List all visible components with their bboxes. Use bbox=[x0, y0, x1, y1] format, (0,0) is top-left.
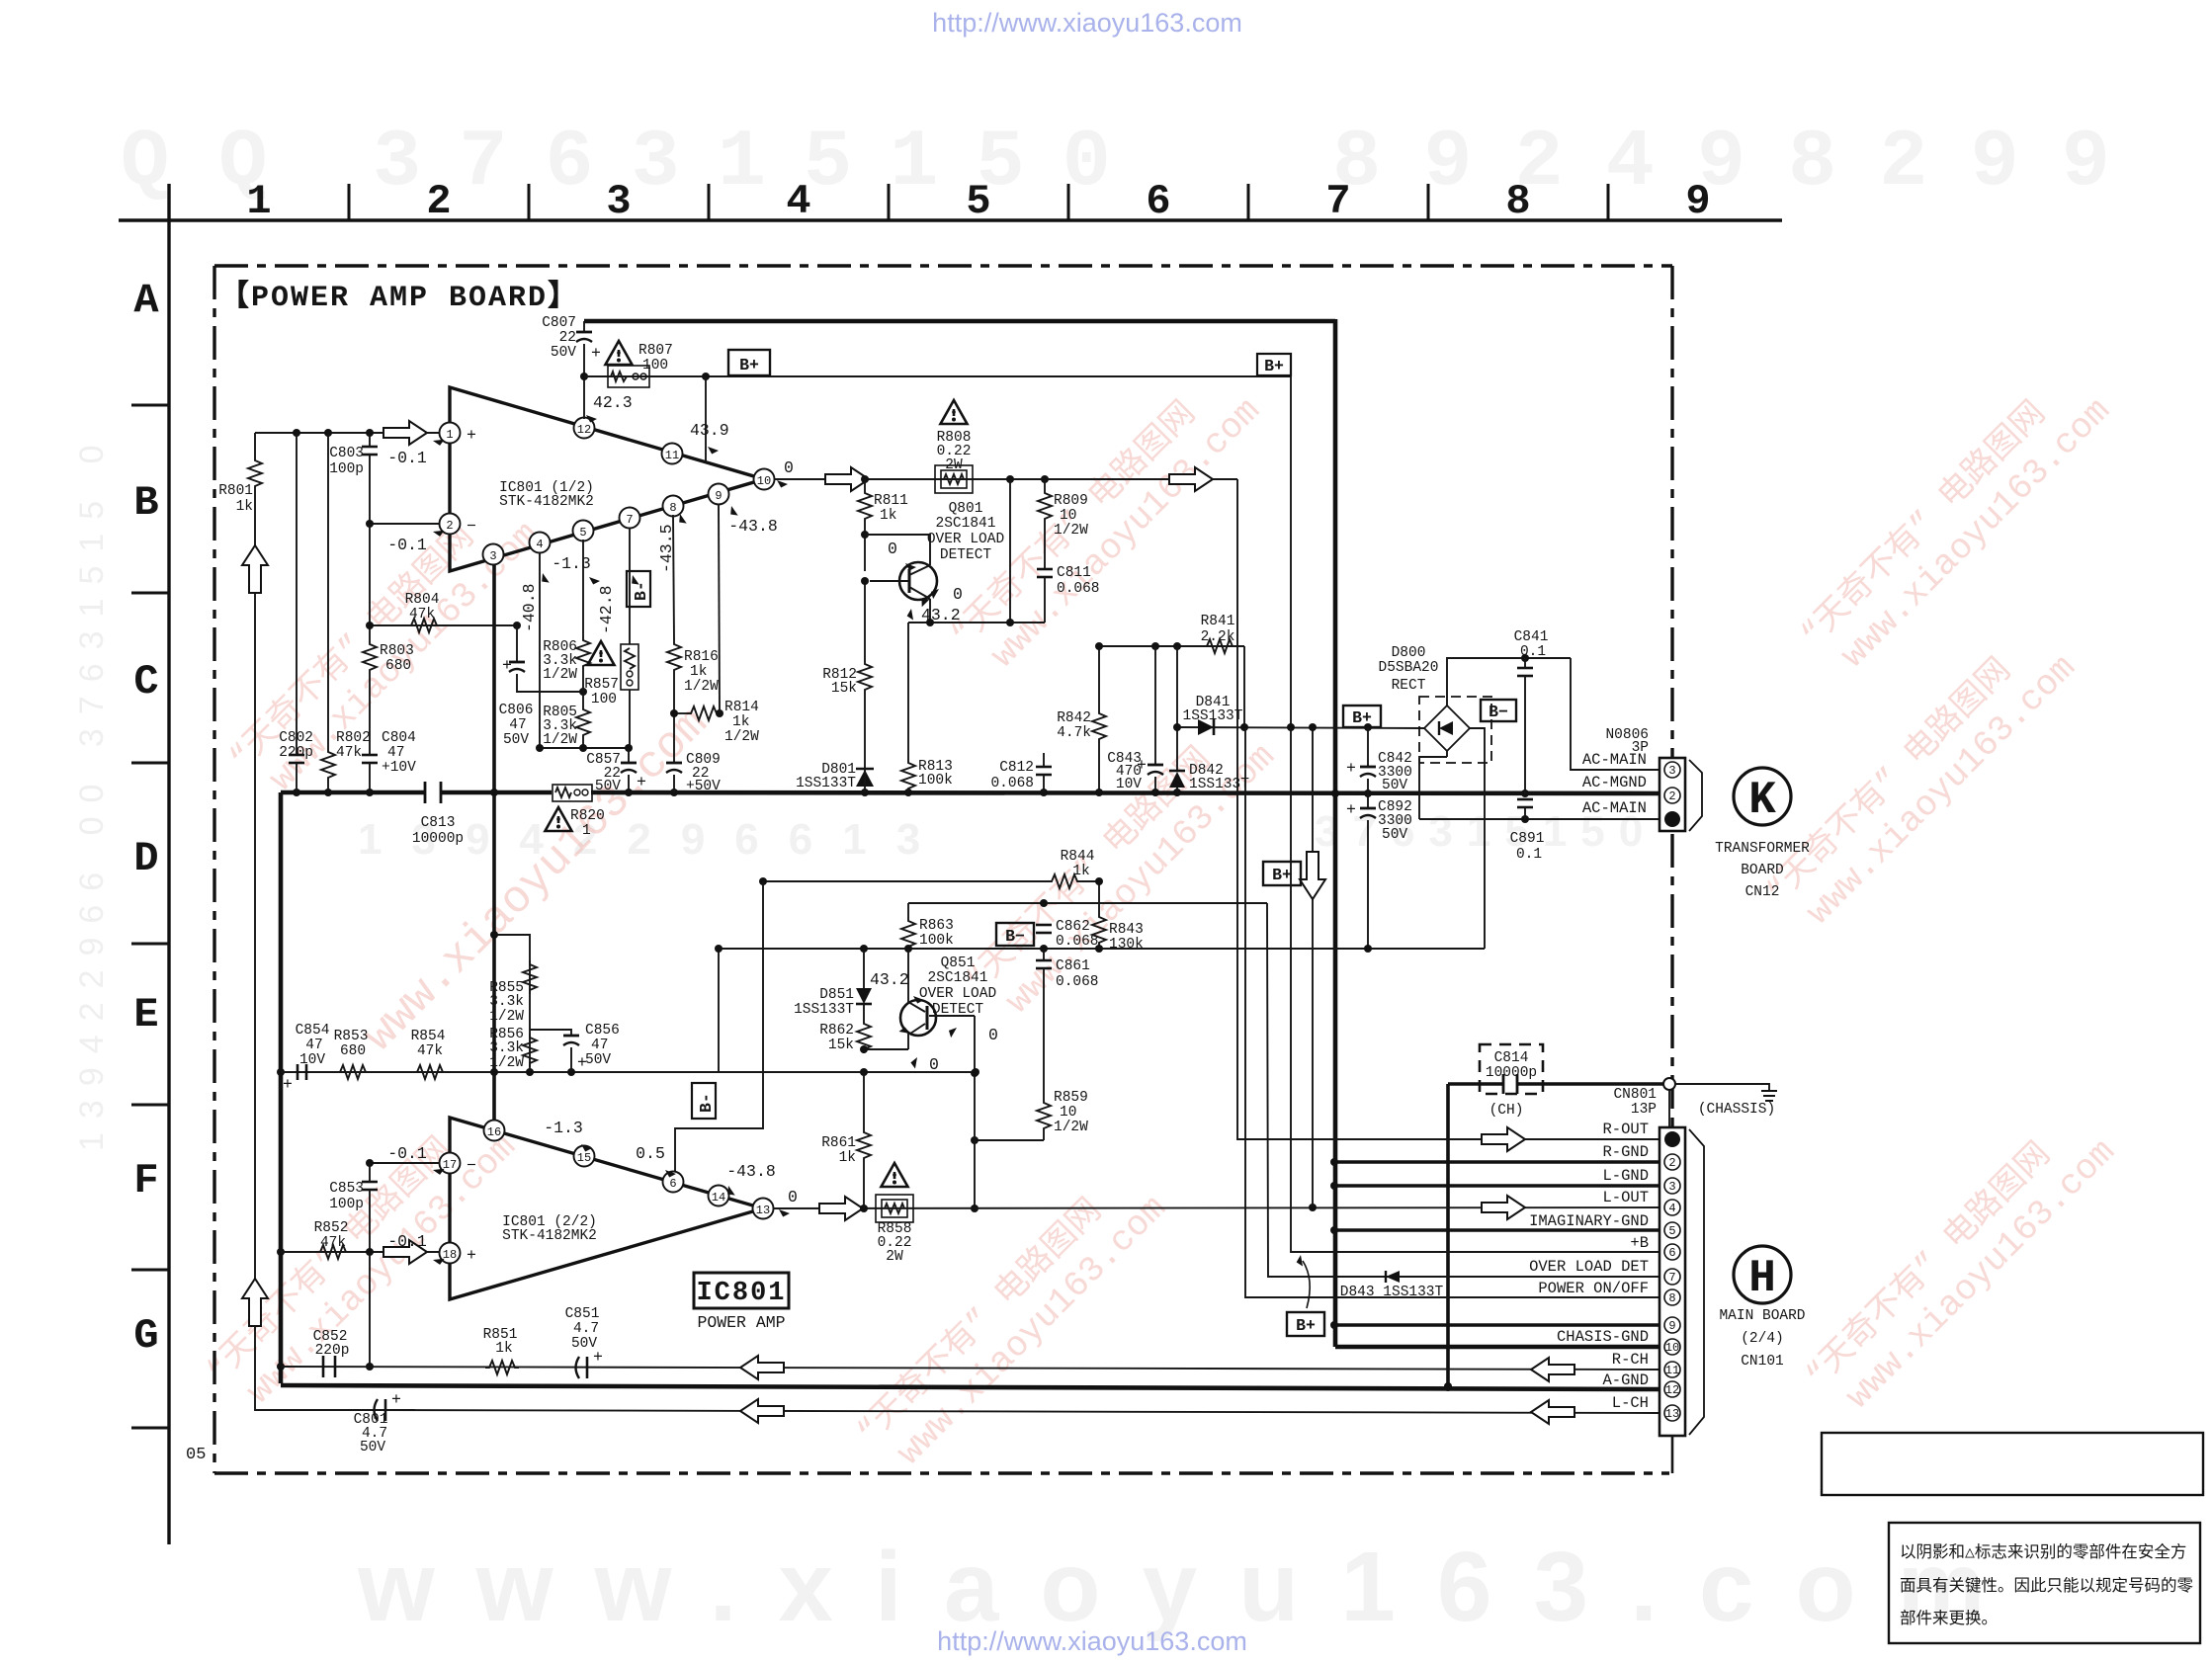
wire: R859 to output node bbox=[975, 1139, 1044, 1141]
watermark: pink diagonal clusters bbox=[199, 360, 2124, 1483]
wire: A-GND thick bus to H pin12 bbox=[281, 1385, 1659, 1389]
svg-text:+: + bbox=[637, 773, 646, 791]
pin 9 bbox=[709, 484, 729, 505]
svg-text:1k: 1k bbox=[1072, 864, 1089, 879]
svg-text:R807: R807 bbox=[638, 343, 673, 359]
svg-text:STK-4182MK2: STK-4182MK2 bbox=[499, 494, 594, 510]
wire: +B riser bbox=[1291, 727, 1659, 1252]
svg-text:0.068: 0.068 bbox=[1056, 934, 1099, 950]
pin 15 bbox=[574, 1146, 595, 1167]
svg-text:15: 15 bbox=[577, 1151, 591, 1165]
svg-text:F: F bbox=[133, 1157, 158, 1205]
board dash-dot border bbox=[214, 264, 1672, 267]
svg-text:1: 1 bbox=[582, 823, 591, 839]
capacitor C854 bbox=[297, 1064, 299, 1080]
svg-text:C803: C803 bbox=[329, 446, 364, 461]
wire: overload det drop bbox=[1267, 903, 1659, 1277]
svg-text:面具有关键性。因此只能以规定号码的零: 面具有关键性。因此只能以规定号码的零 bbox=[1900, 1576, 2194, 1596]
IC801 box label bbox=[694, 1273, 789, 1308]
svg-text:7: 7 bbox=[1325, 178, 1350, 225]
svg-text:-0.1: -0.1 bbox=[387, 1144, 427, 1163]
chinese note box bbox=[1889, 1523, 2200, 1643]
capacitor C856 bbox=[530, 1030, 571, 1036]
svg-text:50V: 50V bbox=[595, 779, 621, 794]
arrow L-CH right bbox=[1531, 1400, 1574, 1424]
svg-text:4: 4 bbox=[1668, 1202, 1675, 1215]
svg-text:+: + bbox=[283, 1075, 293, 1094]
pin 16 bbox=[484, 1121, 505, 1141]
svg-text:1: 1 bbox=[246, 178, 271, 225]
resistor R820 shaded bbox=[553, 785, 592, 801]
wire: output node riser bbox=[974, 1016, 976, 1208]
wire: R-OUT drop bbox=[1237, 479, 1659, 1139]
svg-text:以阴影和△标志来识别的零部件在安全方: 以阴影和△标志来识别的零部件在安全方 bbox=[1900, 1542, 2186, 1562]
svg-text:AC-MAIN: AC-MAIN bbox=[1582, 799, 1647, 817]
svg-text:22: 22 bbox=[559, 330, 576, 346]
svg-text:1/2W: 1/2W bbox=[543, 667, 577, 683]
svg-text:E: E bbox=[133, 991, 158, 1039]
resistor R806 bbox=[582, 540, 584, 636]
svg-text:R802: R802 bbox=[336, 730, 371, 746]
svg-text:R863: R863 bbox=[919, 918, 954, 934]
wire: zobel row 1085 bbox=[281, 1071, 976, 1073]
svg-text:376315150: 376315150 bbox=[373, 117, 1149, 208]
svg-text:10000p: 10000p bbox=[412, 831, 464, 847]
svg-text:-1.3: -1.3 bbox=[544, 1119, 583, 1137]
svg-text:100k: 100k bbox=[918, 773, 953, 789]
svg-text:2: 2 bbox=[1668, 789, 1675, 803]
svg-text:CN101: CN101 bbox=[1741, 1354, 1784, 1370]
connector pin4 bbox=[1664, 1200, 1680, 1215]
svg-text:C856: C856 bbox=[585, 1023, 620, 1039]
svg-text:R862: R862 bbox=[819, 1023, 854, 1039]
capacitor C803 bbox=[369, 433, 371, 447]
svg-text:1SS133T: 1SS133T bbox=[1189, 777, 1249, 792]
svg-text:-0.1: -0.1 bbox=[387, 1232, 427, 1251]
connector pin6 bbox=[1664, 1244, 1680, 1260]
svg-text:-0.1: -0.1 bbox=[387, 449, 427, 467]
wire: bridge bottom AC bbox=[1446, 751, 1448, 757]
wire: input line pin1 bbox=[255, 432, 440, 434]
warning triangle R820 bbox=[546, 807, 572, 831]
svg-text:C891: C891 bbox=[1510, 831, 1545, 847]
wire: R841 right leg bbox=[1243, 646, 1245, 727]
svg-text:http://www.xiaoyu163.com: http://www.xiaoyu163.com bbox=[937, 1626, 1247, 1656]
ruler left line bbox=[167, 184, 170, 1544]
empty note box bbox=[1822, 1433, 2203, 1495]
svg-text:139422966 00 37631515 0: 139422966 00 37631515 0 bbox=[73, 431, 111, 1151]
svg-text:-1.3: -1.3 bbox=[552, 554, 591, 573]
resistor R805 bbox=[582, 692, 584, 706]
svg-text:1k: 1k bbox=[236, 499, 253, 515]
svg-text:D: D bbox=[133, 835, 158, 882]
svg-text:R852: R852 bbox=[314, 1220, 349, 1236]
svg-text:(CH): (CH) bbox=[1489, 1103, 1524, 1119]
svg-text:18: 18 bbox=[443, 1248, 457, 1262]
svg-text:B−: B− bbox=[1005, 927, 1025, 946]
svg-text:50V: 50V bbox=[585, 1052, 611, 1068]
svg-text:R844: R844 bbox=[1061, 849, 1095, 865]
svg-text:AC-MGND: AC-MGND bbox=[1582, 774, 1647, 791]
arrow output4 bbox=[1482, 1196, 1525, 1219]
pin 12 bbox=[574, 418, 595, 439]
connector pin12 bbox=[1664, 1381, 1680, 1397]
svg-text:0.1: 0.1 bbox=[1516, 847, 1542, 863]
svg-text:1/2W: 1/2W bbox=[1054, 1120, 1088, 1135]
wire: amp1 output bbox=[774, 478, 1237, 480]
svg-text:B: B bbox=[133, 479, 158, 527]
svg-text:220p: 220p bbox=[279, 745, 313, 761]
svg-text:D5SBA20: D5SBA20 bbox=[1379, 660, 1439, 676]
svg-text:10V: 10V bbox=[299, 1052, 325, 1068]
pin 18 bbox=[440, 1243, 461, 1264]
svg-text:B+: B+ bbox=[1352, 708, 1372, 727]
warning triangle R857 bbox=[588, 641, 615, 665]
transistor Q801 bbox=[899, 562, 937, 600]
wire: R-GND bbox=[1334, 1160, 1659, 1164]
transistor Q851 bbox=[900, 1000, 936, 1036]
svg-text:47k: 47k bbox=[336, 745, 362, 761]
svg-text:1k: 1k bbox=[732, 714, 749, 730]
wire: AC-MAIN top to K3 bbox=[1571, 658, 1659, 770]
ruler top line bbox=[119, 218, 1782, 221]
wire: pin11 sense bbox=[705, 376, 707, 461]
svg-text:RECT: RECT bbox=[1392, 678, 1426, 694]
wire: R855 tap bbox=[494, 935, 530, 1072]
svg-text:+: + bbox=[502, 656, 512, 675]
svg-text:L-GND: L-GND bbox=[1602, 1167, 1649, 1185]
svg-text:IMAGINARY-GND: IMAGINARY-GND bbox=[1529, 1212, 1649, 1230]
capacitor C843 bbox=[1154, 646, 1156, 765]
connector pin11 bbox=[1664, 1362, 1680, 1377]
svg-text:50V: 50V bbox=[1382, 778, 1407, 793]
svg-text:5: 5 bbox=[1668, 1224, 1675, 1238]
wire: power on/off riser bbox=[1245, 728, 1659, 1297]
resistor R808 shaded bbox=[935, 465, 973, 493]
svg-text:0.5: 0.5 bbox=[636, 1144, 665, 1163]
svg-text:K: K bbox=[1748, 775, 1776, 826]
svg-text:0: 0 bbox=[988, 1026, 998, 1044]
curve B+ pointer bbox=[1303, 1261, 1310, 1308]
wire: 727 drop bbox=[718, 949, 720, 1072]
svg-text:50V: 50V bbox=[571, 1336, 597, 1352]
svg-text:D800: D800 bbox=[1392, 645, 1426, 661]
svg-text:R841: R841 bbox=[1201, 614, 1235, 629]
pin 3 bbox=[483, 544, 504, 565]
resistor R811 bbox=[864, 479, 866, 489]
wire: pin6 feed bbox=[675, 881, 763, 1172]
wire: pin9 drop bbox=[719, 504, 720, 713]
pin 7 bbox=[620, 508, 640, 529]
arrow R-OUT bbox=[1482, 1127, 1525, 1151]
wire: thick vertical x=284 bbox=[279, 792, 284, 1383]
svg-text:43.2: 43.2 bbox=[870, 970, 909, 989]
pin 13 bbox=[753, 1199, 774, 1219]
svg-text:9: 9 bbox=[715, 489, 722, 503]
capacitor C802 bbox=[296, 433, 298, 755]
svg-text:QQ: QQ bbox=[121, 117, 316, 208]
svg-text:680: 680 bbox=[340, 1043, 366, 1059]
svg-text:C807: C807 bbox=[542, 315, 576, 331]
connector K circle bbox=[1734, 768, 1791, 825]
resistor R853 bbox=[336, 1065, 370, 1079]
resistor R856 bbox=[523, 1034, 537, 1067]
svg-text:−: − bbox=[467, 1156, 476, 1175]
chassis stub bbox=[1675, 1084, 1769, 1091]
svg-text:A: A bbox=[133, 277, 159, 324]
svg-text:L-OUT: L-OUT bbox=[1602, 1189, 1649, 1206]
B- label bbox=[1481, 700, 1516, 721]
svg-text:47: 47 bbox=[591, 1038, 608, 1053]
capacitor C814 dashed bbox=[1480, 1044, 1543, 1094]
ruler column numbers bbox=[246, 178, 1710, 225]
svg-text:+: + bbox=[1346, 800, 1356, 819]
wire: main horizontal bus y=802 bbox=[281, 790, 425, 795]
capacitor C806 bbox=[516, 625, 518, 662]
svg-text:-43.8: -43.8 bbox=[728, 517, 778, 536]
wire: collector link bbox=[865, 535, 930, 565]
svg-text:680: 680 bbox=[385, 658, 411, 674]
svg-text:47: 47 bbox=[509, 717, 526, 733]
svg-text:R-GND: R-GND bbox=[1602, 1143, 1649, 1161]
svg-text:(2/4): (2/4) bbox=[1741, 1331, 1784, 1347]
B+ label top bbox=[728, 350, 770, 375]
svg-text:http://www.xiaoyu163.com: http://www.xiaoyu163.com bbox=[932, 8, 1242, 38]
svg-text:C806: C806 bbox=[499, 703, 534, 718]
svg-text:+: + bbox=[467, 426, 476, 445]
capacitor C891 bbox=[1517, 799, 1533, 807]
ruler left ticks bbox=[131, 405, 169, 1428]
arrow output1 bbox=[825, 467, 869, 491]
svg-text:1/2W: 1/2W bbox=[489, 1055, 524, 1071]
svg-text:50V: 50V bbox=[551, 345, 576, 361]
svg-text:17: 17 bbox=[443, 1158, 457, 1172]
warning triangle R808 bbox=[941, 400, 968, 424]
capacitor C842 bbox=[1367, 727, 1369, 767]
wire: pin18 input row bbox=[281, 1251, 440, 1253]
svg-text:Q851: Q851 bbox=[941, 956, 976, 971]
resistor R854 bbox=[413, 1065, 447, 1079]
arrow R-CH right bbox=[1531, 1358, 1574, 1381]
svg-text:50V: 50V bbox=[1382, 827, 1407, 843]
svg-text:Q801: Q801 bbox=[949, 501, 983, 517]
svg-text:0.1: 0.1 bbox=[1520, 644, 1546, 660]
svg-text:H: H bbox=[1748, 1253, 1776, 1304]
svg-text:2W: 2W bbox=[886, 1249, 903, 1265]
svg-text:13: 13 bbox=[756, 1204, 770, 1217]
svg-text:R814: R814 bbox=[724, 700, 759, 715]
svg-text:1/2W: 1/2W bbox=[489, 1009, 524, 1025]
wire: bridge B- leg bbox=[1470, 728, 1485, 949]
svg-text:10V: 10V bbox=[1116, 777, 1142, 792]
svg-text:1/2W: 1/2W bbox=[724, 729, 759, 745]
node R807 right bbox=[702, 373, 710, 380]
resistor R851 bbox=[485, 1361, 519, 1374]
svg-text:C812: C812 bbox=[999, 760, 1034, 776]
B+ label H area bbox=[1287, 1312, 1324, 1336]
svg-text:2: 2 bbox=[446, 519, 453, 533]
svg-text:0.068: 0.068 bbox=[1057, 581, 1100, 597]
warning triangle R807 bbox=[606, 341, 633, 365]
svg-text:50V: 50V bbox=[360, 1440, 385, 1455]
pin 8 bbox=[663, 496, 684, 517]
svg-text:+: + bbox=[591, 344, 601, 363]
wire: AC-MAIN bottom to K1 bbox=[1419, 818, 1659, 820]
svg-text:R853: R853 bbox=[334, 1029, 369, 1044]
svg-text:2SC1841: 2SC1841 bbox=[928, 970, 988, 986]
svg-text:C861: C861 bbox=[1056, 958, 1090, 974]
svg-text:C802: C802 bbox=[279, 730, 313, 746]
node R811 bottom bbox=[861, 531, 869, 539]
svg-text:3: 3 bbox=[489, 549, 496, 563]
arrow input pin18 bbox=[383, 1240, 427, 1264]
wire: R863 top row bbox=[908, 902, 1267, 904]
svg-text:-43.8: -43.8 bbox=[726, 1162, 776, 1181]
wire: pin2 input bbox=[370, 523, 440, 525]
resistor R812 bbox=[864, 581, 866, 660]
svg-text:R859: R859 bbox=[1054, 1090, 1088, 1106]
svg-text:13P: 13P bbox=[1631, 1102, 1657, 1118]
connector pin2 bbox=[1664, 1154, 1680, 1170]
svg-text:(CHASSIS): (CHASSIS) bbox=[1698, 1102, 1775, 1118]
svg-text:部件来更换。: 部件来更换。 bbox=[1900, 1609, 1998, 1628]
resistor R804 bbox=[407, 619, 441, 632]
capacitor C813 bbox=[424, 782, 427, 803]
svg-text:1k: 1k bbox=[690, 664, 707, 680]
svg-text:892498299: 892498299 bbox=[1332, 117, 2153, 208]
rectifier D800 bridge bbox=[1419, 697, 1491, 763]
svg-text:AC-MAIN: AC-MAIN bbox=[1582, 751, 1647, 769]
resistor R807 shaded bbox=[608, 366, 649, 387]
svg-text:3: 3 bbox=[1668, 1180, 1675, 1194]
svg-text:DETECT: DETECT bbox=[932, 1002, 984, 1018]
svg-text:C813: C813 bbox=[421, 815, 456, 831]
svg-text:+: + bbox=[391, 1390, 401, 1409]
svg-text:STK-4182MK2: STK-4182MK2 bbox=[502, 1228, 597, 1244]
wire: thick vertical common x=1351 bbox=[1333, 319, 1338, 1347]
connector pin7 bbox=[1664, 1269, 1680, 1285]
wire: pin4 drop bbox=[539, 552, 541, 748]
capacitor C851 bbox=[576, 1357, 580, 1378]
svg-text:10: 10 bbox=[757, 474, 771, 488]
connector pin10 bbox=[1664, 1339, 1680, 1355]
capacitor C809 bbox=[666, 763, 682, 773]
svg-text:R854: R854 bbox=[411, 1029, 446, 1044]
node R861 bottom bbox=[860, 1205, 868, 1212]
wire: B+ thin top rail bbox=[584, 375, 1291, 377]
svg-text:G: G bbox=[133, 1312, 158, 1360]
pin 2 bbox=[440, 514, 461, 535]
svg-text:+: + bbox=[1346, 759, 1356, 778]
svg-text:100p: 100p bbox=[329, 1197, 364, 1212]
wire: row 757 bbox=[540, 747, 629, 749]
B+ label top right bbox=[1257, 354, 1291, 375]
svg-text:4: 4 bbox=[786, 178, 810, 225]
resistor R803 bbox=[369, 524, 371, 640]
node A-GND riser junction bbox=[1444, 1383, 1452, 1391]
connector pin9 bbox=[1664, 1317, 1680, 1333]
node output R811 bbox=[861, 475, 869, 483]
svg-text:1: 1 bbox=[446, 428, 453, 442]
svg-text:-40.8: -40.8 bbox=[520, 583, 539, 632]
svg-text:POWER AMP: POWER AMP bbox=[697, 1313, 785, 1332]
svg-text:50V: 50V bbox=[503, 732, 529, 748]
wire: pin9 gnd bbox=[1334, 1323, 1659, 1327]
capacitor C801 bbox=[375, 1399, 379, 1421]
capacitor C811 bbox=[1037, 569, 1053, 577]
svg-text:CN12: CN12 bbox=[1745, 884, 1780, 900]
svg-text:13: 13 bbox=[1665, 1407, 1679, 1421]
arrow R-CH left bbox=[740, 1356, 784, 1379]
svg-text:5: 5 bbox=[579, 526, 586, 540]
svg-text:10000p: 10000p bbox=[1486, 1065, 1537, 1081]
svg-text:0: 0 bbox=[788, 1188, 798, 1206]
svg-text:CN801: CN801 bbox=[1613, 1087, 1657, 1103]
svg-text:C804: C804 bbox=[382, 730, 416, 746]
resistor R841 bbox=[1203, 639, 1236, 653]
svg-text:3: 3 bbox=[1668, 764, 1675, 778]
wire: bridge top AC bbox=[1447, 658, 1571, 706]
pin 10 bbox=[754, 469, 775, 490]
svg-text:3.3k: 3.3k bbox=[489, 994, 524, 1010]
wire: R844 row left drop bbox=[763, 880, 1010, 882]
svg-text:4.7: 4.7 bbox=[573, 1321, 599, 1337]
svg-text:R809: R809 bbox=[1054, 493, 1088, 509]
resistor R862 bbox=[863, 1016, 865, 1020]
wire: emitter row bbox=[864, 1048, 908, 1050]
svg-text:R811: R811 bbox=[874, 493, 908, 509]
svg-text:2: 2 bbox=[426, 178, 451, 225]
ruler top ticks bbox=[349, 184, 1608, 220]
svg-text:0.068: 0.068 bbox=[990, 776, 1034, 791]
svg-text:R804: R804 bbox=[405, 592, 440, 608]
svg-text:R816: R816 bbox=[684, 649, 719, 665]
svg-text:0: 0 bbox=[888, 540, 897, 558]
pin 1 bbox=[440, 423, 461, 444]
wire: IMAGINARY-GND bbox=[1334, 1228, 1659, 1232]
resistor R858 shaded bbox=[876, 1195, 913, 1222]
arrow input pin1 bbox=[383, 421, 427, 445]
svg-text:4.7k: 4.7k bbox=[1057, 725, 1091, 741]
svg-text:0.068: 0.068 bbox=[1056, 974, 1099, 990]
resistor R809 bbox=[1044, 479, 1046, 489]
connector pin8 bbox=[1664, 1289, 1680, 1305]
svg-text:+B: +B bbox=[1630, 1234, 1649, 1252]
svg-text:8: 8 bbox=[669, 501, 676, 515]
wire: R804 feedback bbox=[370, 624, 517, 626]
B+ label near arrow bbox=[1263, 862, 1301, 885]
svg-text:DETECT: DETECT bbox=[940, 547, 992, 563]
diode D842 bbox=[1176, 646, 1178, 771]
svg-text:1SS133T: 1SS133T bbox=[794, 1002, 854, 1018]
wire: output sense branch bbox=[1009, 479, 1011, 623]
wire: amp2 output / L-OUT bbox=[773, 1207, 1659, 1208]
B- rotated label bottom bbox=[692, 1083, 716, 1119]
svg-text:100p: 100p bbox=[329, 461, 364, 477]
svg-text:TRANSFORMER: TRANSFORMER bbox=[1715, 841, 1810, 857]
svg-text:C814: C814 bbox=[1494, 1050, 1529, 1066]
svg-text:15k: 15k bbox=[831, 681, 857, 697]
svg-text:8: 8 bbox=[1668, 1291, 1675, 1305]
svg-text:OVER LOAD DET: OVER LOAD DET bbox=[1529, 1258, 1649, 1276]
warning triangle R858 bbox=[882, 1163, 908, 1187]
svg-text:6: 6 bbox=[1668, 1246, 1675, 1260]
op-amp IC801 2/2 triangle bbox=[450, 1118, 763, 1299]
wire: riser 1328 bbox=[1312, 727, 1314, 1207]
svg-text:7: 7 bbox=[626, 513, 633, 527]
wire: below connector bbox=[1671, 1436, 1674, 1473]
svg-text:D843 1SS133T: D843 1SS133T bbox=[1340, 1285, 1444, 1300]
